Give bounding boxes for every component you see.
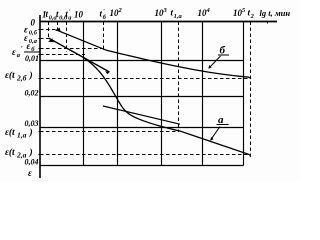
svg-text:2: 2 bbox=[118, 7, 123, 14]
svg-text:2: 2 bbox=[250, 13, 255, 20]
svg-text:5: 5 bbox=[242, 7, 246, 14]
svg-text:а: а bbox=[218, 114, 224, 126]
svg-text:б: б bbox=[220, 44, 226, 56]
svg-text:ε: ε bbox=[12, 47, 16, 57]
svg-text:0,01: 0,01 bbox=[25, 54, 39, 63]
svg-text:': ' bbox=[35, 39, 37, 47]
svg-text:': ' bbox=[103, 8, 105, 15]
svg-text:): ) bbox=[29, 127, 33, 138]
svg-text:10: 10 bbox=[74, 10, 84, 20]
svg-text:4: 4 bbox=[206, 7, 211, 14]
svg-text:': ' bbox=[21, 45, 23, 53]
svg-text:ε(t: ε(t bbox=[5, 127, 15, 138]
svg-text:0: 0 bbox=[31, 18, 36, 28]
svg-text:2,б: 2,б bbox=[16, 73, 27, 82]
svg-text:lg t, мин: lg t, мин bbox=[260, 8, 291, 18]
svg-text:ε(t: ε(t bbox=[5, 70, 15, 81]
svg-text:): ) bbox=[29, 70, 33, 81]
svg-text:1,а: 1,а bbox=[174, 13, 183, 20]
svg-text:ε: ε bbox=[27, 41, 31, 51]
svg-text:0,04: 0,04 bbox=[25, 158, 39, 167]
svg-text:ε(t: ε(t bbox=[5, 147, 15, 158]
svg-text:': ' bbox=[69, 9, 71, 16]
svg-text:0,02: 0,02 bbox=[25, 89, 39, 98]
svg-text:0,03: 0,03 bbox=[25, 119, 39, 128]
svg-text:ε: ε bbox=[28, 168, 32, 178]
svg-text:): ) bbox=[29, 147, 33, 158]
svg-text:б: б bbox=[103, 14, 107, 21]
svg-text:а: а bbox=[17, 52, 21, 59]
svg-text:а: а bbox=[68, 15, 72, 22]
svg-text:0,б: 0,б bbox=[29, 30, 38, 37]
svg-text:3: 3 bbox=[163, 7, 168, 14]
svg-text:1,а: 1,а bbox=[17, 130, 27, 139]
